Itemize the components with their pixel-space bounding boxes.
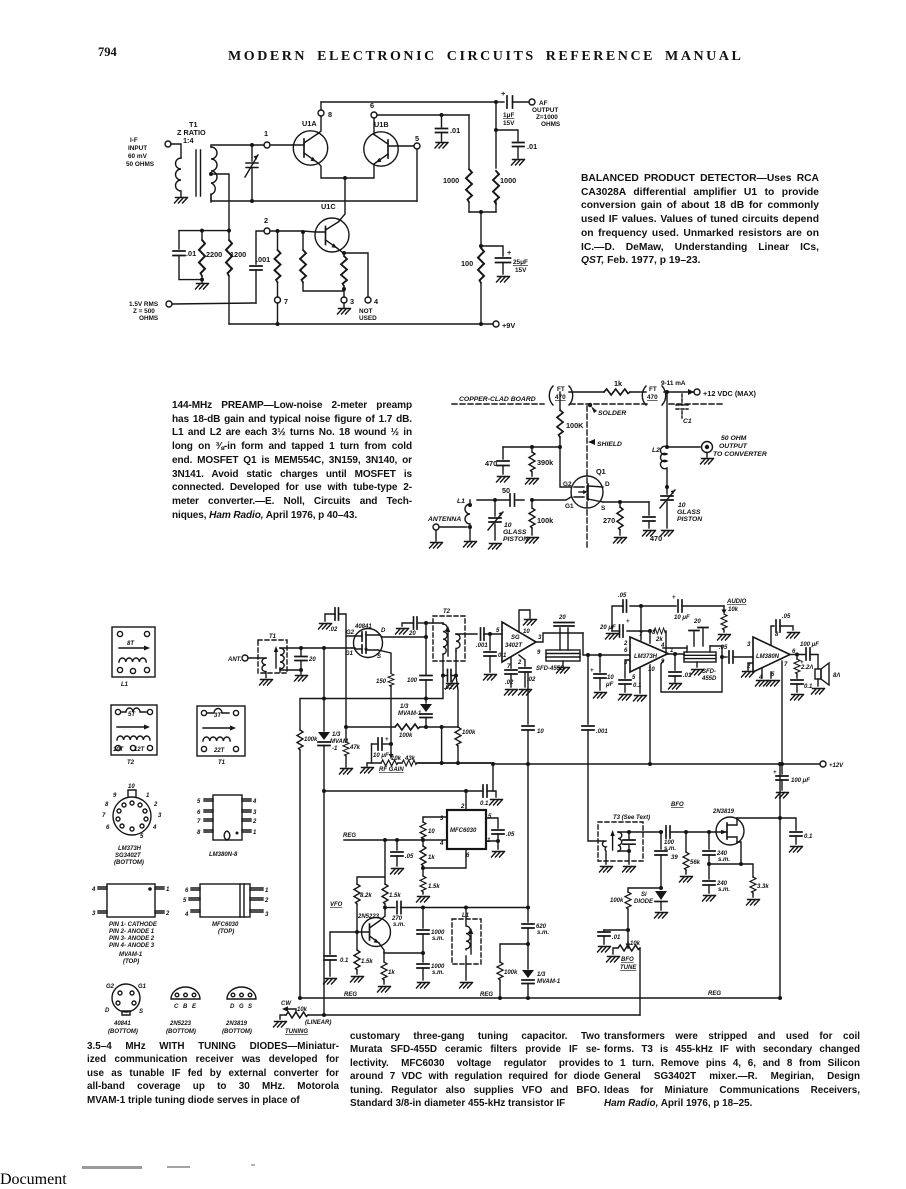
ground (390k) bbox=[526, 479, 539, 485]
svg-text:20: 20 bbox=[693, 619, 701, 625]
T3 primary coil with arrow bbox=[602, 830, 614, 864]
svg-text:7: 7 bbox=[284, 297, 288, 306]
svg-text:5: 5 bbox=[415, 134, 419, 143]
svg-text:BFO: BFO bbox=[671, 802, 684, 808]
wire drain junction bbox=[665, 485, 669, 489]
svg-text:50 OHMS: 50 OHMS bbox=[126, 161, 155, 168]
coil L1 bbox=[457, 498, 472, 527]
T1 secondary with arrow bbox=[274, 646, 284, 672]
svg-text:2: 2 bbox=[623, 641, 628, 647]
svg-text:40841: 40841 bbox=[354, 624, 372, 630]
svg-text:S: S bbox=[377, 654, 381, 660]
ground (base cap) bbox=[324, 979, 337, 985]
ground (.05 pin8) bbox=[787, 633, 800, 639]
svg-text:s.m.: s.m. bbox=[393, 922, 405, 928]
svg-text:3: 3 bbox=[253, 810, 257, 816]
svg-text:(BOTTOM): (BOTTOM) bbox=[108, 1029, 138, 1035]
svg-text:100k: 100k bbox=[504, 970, 518, 976]
resistor 100k (tuning feed) bbox=[497, 944, 528, 998]
svg-text:2: 2 bbox=[264, 216, 268, 225]
svg-text:6: 6 bbox=[106, 825, 110, 831]
node pin 3 bbox=[341, 297, 354, 306]
svg-text:150: 150 bbox=[376, 679, 387, 685]
potentiometer 10k RF GAIN bbox=[372, 744, 416, 773]
svg-text:10: 10 bbox=[607, 675, 614, 681]
svg-text:MVAM-1: MVAM-1 bbox=[398, 711, 422, 717]
ground (.05 reg) bbox=[391, 869, 404, 875]
ground (T1 secondary) bbox=[295, 676, 308, 682]
ground (pin2 .02) bbox=[519, 690, 532, 696]
wire G1 bbox=[352, 648, 355, 649]
ground (SFD1) bbox=[557, 668, 570, 674]
coil L1 (VFO tank) dashed box bbox=[452, 908, 481, 981]
svg-text:1k: 1k bbox=[428, 855, 435, 861]
coil L2 bbox=[652, 445, 669, 487]
wire pin2 to reg rail bbox=[465, 791, 467, 810]
capacitor .05 (pin7 top) bbox=[612, 593, 643, 640]
capacitor .02 (pin 2) bbox=[519, 655, 536, 687]
svg-text:REG: REG bbox=[480, 992, 493, 998]
wire pin10 to +12V rail bbox=[648, 665, 652, 766]
svg-text:U1B: U1B bbox=[374, 120, 389, 129]
node pin 6 bbox=[370, 101, 377, 118]
ground (BFO 0.1) bbox=[790, 847, 803, 853]
resistor 390k bbox=[529, 447, 554, 476]
left RC rail bbox=[179, 230, 229, 232]
svg-text:6: 6 bbox=[624, 648, 628, 654]
svg-text:5: 5 bbox=[197, 799, 201, 805]
capacitor .02 (T2 cold end) bbox=[441, 670, 458, 692]
svg-text:(BOTTOM): (BOTTOM) bbox=[166, 1029, 196, 1035]
svg-text:TUNING: TUNING bbox=[285, 1029, 308, 1035]
svg-text:8: 8 bbox=[105, 802, 109, 808]
wire pin 2 bbox=[742, 663, 755, 677]
svg-text:+: + bbox=[773, 770, 777, 776]
capacitor 240 s.m. (upper) bbox=[703, 830, 730, 866]
svg-text:+: + bbox=[800, 660, 804, 666]
svg-text:S: S bbox=[601, 505, 606, 512]
wire pin1 to U1A base bbox=[270, 144, 293, 146]
resistor (U1C emitter) bbox=[341, 251, 347, 297]
capacitor .05 (pin5-pin1) bbox=[486, 818, 515, 841]
svg-text:15V: 15V bbox=[515, 267, 527, 274]
scan artifact bars at page bottom bbox=[82, 1166, 142, 1169]
wire T2 bottom bus bbox=[426, 676, 443, 699]
resistor 1200 bbox=[226, 240, 246, 324]
top +rail bbox=[321, 101, 496, 103]
svg-text:VFO: VFO bbox=[330, 902, 343, 908]
wire down to 100/25uF bbox=[480, 212, 482, 248]
ground (top caps) bbox=[606, 634, 619, 640]
wire emitter feedback tap bbox=[384, 951, 425, 955]
svg-text:455D: 455D bbox=[701, 676, 717, 682]
svg-text:PISTON: PISTON bbox=[503, 536, 529, 543]
svg-text:PIN 3- ANODE 2: PIN 3- ANODE 2 bbox=[109, 936, 155, 942]
capacitor 0.1 (base) bbox=[324, 932, 357, 976]
wire source bbox=[603, 501, 649, 503]
svg-text:S: S bbox=[248, 1004, 252, 1010]
node ANT input bbox=[227, 655, 266, 663]
resistor 1.5k (collector) bbox=[382, 884, 401, 910]
svg-text:1: 1 bbox=[146, 793, 150, 799]
svg-text:(TOP): (TOP) bbox=[123, 959, 139, 965]
svg-text:OHMS: OHMS bbox=[541, 121, 561, 128]
ground (neutralizing 20) bbox=[396, 629, 409, 635]
svg-text:3.3k: 3.3k bbox=[757, 884, 769, 890]
svg-text:6: 6 bbox=[197, 810, 201, 816]
wire G1 bbox=[516, 497, 571, 500]
svg-text:3: 3 bbox=[350, 297, 354, 306]
svg-text:s.m.: s.m. bbox=[537, 930, 549, 936]
grounds (pins 4,5) bbox=[756, 668, 780, 686]
svg-text:s.m.: s.m. bbox=[432, 970, 444, 976]
svg-text:FT: FT bbox=[649, 386, 657, 393]
svg-text:100K: 100K bbox=[566, 421, 584, 430]
resistor (IC internal, pin2-pin3) bbox=[300, 230, 344, 291]
svg-text:20 μF: 20 μF bbox=[599, 625, 616, 631]
svg-text:s.m.: s.m. bbox=[718, 887, 730, 893]
svg-text:D: D bbox=[381, 628, 386, 634]
svg-text:4: 4 bbox=[374, 297, 379, 306]
svg-text:T3 (See Text): T3 (See Text) bbox=[613, 815, 650, 821]
svg-text:TUNE: TUNE bbox=[620, 965, 637, 971]
ground (RC network) bbox=[196, 280, 209, 289]
svg-text:SOLDER: SOLDER bbox=[598, 410, 626, 417]
svg-text:4: 4 bbox=[252, 799, 257, 805]
wire pin2 to U1C base bbox=[270, 231, 315, 232]
wire secondary top to pin 1 bbox=[211, 145, 264, 147]
IF amplifier LM373H triangle bbox=[623, 630, 674, 681]
svg-text:5: 5 bbox=[488, 814, 492, 820]
svg-text:(LINEAR): (LINEAR) bbox=[305, 1020, 331, 1026]
capacitor C1 (dashed) bbox=[676, 394, 692, 425]
capacitor .05 (reg bypass) bbox=[391, 838, 414, 866]
svg-text:COPPER-CLAD BOARD: COPPER-CLAD BOARD bbox=[459, 396, 536, 403]
svg-text:SHIELD: SHIELD bbox=[597, 441, 622, 448]
diode MVAM-1 pinout bbox=[91, 884, 170, 965]
svg-text:10: 10 bbox=[428, 829, 435, 835]
wire +12 down branch bbox=[665, 390, 669, 447]
T2 secondary coil bbox=[456, 634, 460, 676]
svg-text:10 μF: 10 μF bbox=[373, 753, 389, 759]
svg-text:INPUT: INPUT bbox=[128, 145, 147, 152]
svg-text:0.1: 0.1 bbox=[480, 801, 489, 807]
label T1 Z RATIO 1:4 bbox=[177, 120, 206, 145]
svg-text:20: 20 bbox=[308, 657, 316, 663]
svg-text:.05: .05 bbox=[782, 614, 791, 620]
potentiometer 10k BFO TUNE bbox=[613, 941, 641, 971]
resistor 10 (pin3) bbox=[420, 817, 447, 840]
svg-text:FT: FT bbox=[557, 386, 565, 393]
ground (240 lower) bbox=[703, 896, 716, 902]
node pin 5 bbox=[414, 134, 420, 149]
svg-text:GLASS: GLASS bbox=[677, 509, 701, 516]
wire pin1 to ground bbox=[486, 839, 505, 857]
svg-text:E: E bbox=[192, 1004, 197, 1010]
svg-text:REG: REG bbox=[708, 991, 721, 997]
T2 primary coil with arrow bbox=[443, 623, 450, 676]
svg-text:T1: T1 bbox=[218, 760, 226, 766]
svg-text:390k: 390k bbox=[537, 458, 554, 467]
wire pot to tuning bus bbox=[639, 948, 641, 1015]
svg-text:RF GAIN: RF GAIN bbox=[379, 767, 404, 773]
capacitor 0.1 (zobel) bbox=[791, 680, 813, 692]
svg-text:10: 10 bbox=[128, 784, 135, 790]
svg-text:8.2k: 8.2k bbox=[360, 893, 372, 899]
svg-text:1: 1 bbox=[253, 830, 257, 836]
svg-text:G1: G1 bbox=[138, 984, 147, 990]
transformer T1 pinout box bbox=[197, 706, 245, 766]
svg-text:Z = 500: Z = 500 bbox=[133, 308, 155, 315]
svg-text:D: D bbox=[105, 1008, 110, 1014]
svg-text:G: G bbox=[239, 1004, 244, 1010]
svg-text:2: 2 bbox=[153, 802, 158, 808]
wire SFD1 to IF amp bbox=[583, 633, 629, 657]
svg-text:ANTENNA: ANTENNA bbox=[427, 516, 461, 523]
resistor 1k (emitter) bbox=[381, 952, 395, 984]
svg-text:SFD-: SFD- bbox=[702, 669, 716, 675]
wire G2 bbox=[346, 636, 355, 727]
resistor 1k (pin4-pin6 divider) bbox=[420, 840, 435, 870]
ground (audio pot) bbox=[718, 635, 731, 641]
capacitor 100uF (speaker coupling) bbox=[800, 642, 819, 668]
capacitor 10 (IF takeoff) bbox=[522, 672, 544, 908]
transistor 2N5223 (VFO) bbox=[357, 908, 391, 953]
svg-text:S: S bbox=[139, 1009, 143, 1015]
svg-text:G2: G2 bbox=[563, 481, 572, 488]
ground (connector) bbox=[701, 459, 714, 465]
svg-text:PIN 1- CATHODE: PIN 1- CATHODE bbox=[109, 922, 158, 928]
capacitor 100 (AGC filter) bbox=[322, 676, 432, 704]
capacitor .001 (IF line bypass) bbox=[582, 655, 608, 841]
ground (100k) bbox=[526, 538, 539, 544]
svg-text:4: 4 bbox=[152, 825, 157, 831]
svg-text:5: 5 bbox=[140, 834, 144, 840]
ground (3.3k) bbox=[747, 900, 760, 906]
svg-text:10: 10 bbox=[537, 729, 544, 735]
svg-text:MVAM: MVAM bbox=[330, 739, 349, 745]
node pin 4 NOT USED bbox=[359, 297, 379, 322]
svg-text:100 μF: 100 μF bbox=[791, 778, 810, 784]
node pin 7 bbox=[275, 297, 289, 306]
svg-text:Si: Si bbox=[641, 892, 647, 898]
resistor 1000 (right) bbox=[493, 171, 516, 212]
svg-text:60 mV: 60 mV bbox=[128, 153, 148, 160]
svg-text:2N3819: 2N3819 bbox=[712, 809, 735, 815]
IC MFC6030 pinout bbox=[183, 884, 269, 935]
wire drain bbox=[737, 816, 796, 830]
svg-text:+: + bbox=[672, 595, 676, 601]
junction bbox=[250, 143, 254, 147]
svg-text:LM380N-8: LM380N-8 bbox=[209, 852, 238, 858]
neutralizing wire with capacitor 20 bbox=[402, 617, 428, 637]
svg-text:10: 10 bbox=[523, 629, 530, 635]
capacitor 470 (source) bbox=[643, 502, 662, 543]
resistor 100k (left tuning feed) bbox=[297, 699, 426, 999]
wire top rail down right branch bbox=[495, 102, 497, 168]
op-amp U1A (transistor) bbox=[293, 116, 345, 178]
svg-text:100: 100 bbox=[461, 259, 473, 268]
svg-text:1.5k: 1.5k bbox=[389, 893, 401, 899]
svg-text:s.m.: s.m. bbox=[432, 936, 444, 942]
node AF output bbox=[529, 99, 561, 128]
svg-text:2: 2 bbox=[517, 660, 522, 666]
wire mixer output bbox=[536, 633, 583, 642]
svg-text:MVAM-1: MVAM-1 bbox=[119, 952, 143, 958]
svg-text:SG: SG bbox=[511, 635, 520, 641]
capacitor 0.1 (mixer input bypass) bbox=[484, 632, 507, 672]
svg-text:G2: G2 bbox=[346, 630, 355, 636]
svg-text:G1: G1 bbox=[565, 503, 574, 510]
ground (SFD2) bbox=[691, 670, 704, 676]
svg-text:C1: C1 bbox=[683, 418, 692, 425]
svg-text:BFO: BFO bbox=[621, 957, 634, 963]
ground (divider) bbox=[417, 897, 430, 903]
svg-text:PIN 2- ANODE 1: PIN 2- ANODE 1 bbox=[109, 929, 155, 935]
svg-text:.02: .02 bbox=[505, 680, 514, 686]
ground (100uF supply) bbox=[776, 793, 789, 799]
ground (0.1 regulator) bbox=[490, 800, 503, 806]
svg-text:REG: REG bbox=[344, 992, 357, 998]
svg-text:10k: 10k bbox=[391, 756, 402, 762]
svg-text:L1: L1 bbox=[121, 682, 129, 688]
svg-text:3: 3 bbox=[158, 813, 162, 819]
wire secondary top bbox=[280, 647, 352, 649]
ground (Si diode) bbox=[655, 913, 668, 919]
label 9-11 mA bbox=[661, 380, 694, 395]
svg-text:7: 7 bbox=[197, 819, 201, 825]
capacitor 0.1 (pin1 bypass) bbox=[669, 654, 692, 682]
svg-text:7: 7 bbox=[784, 662, 788, 668]
svg-text:1000: 1000 bbox=[500, 176, 516, 185]
svg-text:SG3402T: SG3402T bbox=[115, 853, 142, 859]
resistor 2k (feedback) bbox=[654, 628, 666, 654]
ground (.01 output) bbox=[512, 160, 525, 166]
transformer T3 dashed box bbox=[598, 815, 650, 861]
svg-text:1μF: 1μF bbox=[503, 112, 514, 119]
svg-text:10T: 10T bbox=[113, 747, 125, 753]
ground (T1 primary) bbox=[175, 198, 188, 204]
svg-text:.001: .001 bbox=[476, 643, 488, 649]
ground (pin 3) bbox=[338, 303, 351, 314]
coil L1 pinout box bbox=[112, 627, 155, 688]
svg-text:OHMS: OHMS bbox=[139, 315, 159, 322]
diode 1/3 MVAM-1 (T1 tuning) bbox=[318, 648, 349, 1015]
svg-text:5: 5 bbox=[496, 628, 500, 634]
svg-text:9: 9 bbox=[537, 650, 541, 656]
svg-text:Q1: Q1 bbox=[596, 467, 606, 476]
ground (T2 .02) bbox=[446, 676, 459, 690]
ground (56k) bbox=[680, 877, 693, 883]
svg-text:1/3: 1/3 bbox=[332, 732, 341, 738]
capacitor .01 (left) bbox=[173, 231, 201, 280]
svg-text:LM380N: LM380N bbox=[756, 654, 780, 660]
svg-text:NOT: NOT bbox=[359, 308, 373, 315]
capacitor .01 (BFO tune) bbox=[598, 928, 630, 944]
svg-text:.01: .01 bbox=[450, 126, 460, 135]
bottom return rail of input section bbox=[211, 194, 417, 201]
transistor U1C bbox=[315, 202, 349, 253]
svg-text:20: 20 bbox=[558, 615, 566, 621]
wire pin6 bbox=[423, 849, 466, 868]
+12V supply rail bbox=[417, 762, 820, 766]
shield arrow label bbox=[588, 439, 622, 448]
svg-text:1/3: 1/3 bbox=[537, 972, 546, 978]
svg-text:8T: 8T bbox=[127, 641, 135, 647]
wire pin2 left to .001 bbox=[256, 231, 264, 264]
page number bbox=[98, 45, 117, 60]
svg-text:+: + bbox=[626, 619, 630, 625]
svg-text:.05: .05 bbox=[618, 593, 627, 599]
transformer T1 primary bbox=[176, 158, 182, 197]
wire SFD2 out / capacitor .05 bbox=[660, 643, 722, 692]
op-amp SG3402T mixer U-triangle bbox=[496, 622, 542, 670]
svg-text:100k: 100k bbox=[462, 730, 476, 736]
capacitor 100 s.m. bbox=[664, 826, 716, 852]
caption: 144-MHz preamp bbox=[172, 399, 412, 522]
solder point bbox=[588, 403, 627, 417]
svg-text:8: 8 bbox=[197, 830, 201, 836]
+12V supply rail bbox=[569, 391, 694, 393]
REG return rail bbox=[298, 991, 782, 1000]
T1 primary bbox=[262, 658, 266, 678]
ground (zobel) bbox=[791, 695, 804, 701]
svg-text:AF: AF bbox=[539, 100, 548, 107]
svg-text:10: 10 bbox=[504, 522, 512, 529]
svg-text:5T: 5T bbox=[128, 712, 136, 718]
capacitor 20 (antenna tank) bbox=[295, 648, 316, 670]
ground (antenna) bbox=[430, 530, 443, 548]
svg-text:2N5223: 2N5223 bbox=[357, 914, 380, 920]
trimmer 10 glass piston (output) bbox=[660, 487, 703, 528]
+9V rail bbox=[229, 322, 493, 326]
svg-text:1/3: 1/3 bbox=[400, 704, 409, 710]
capacitor .01 (pin6) bbox=[436, 115, 461, 141]
wire source to divider tap bbox=[709, 842, 753, 877]
svg-text:1k: 1k bbox=[388, 970, 395, 976]
svg-text:U1A: U1A bbox=[302, 119, 317, 128]
ground (.01 pin6) bbox=[435, 143, 448, 149]
capacitor 470 (gate2 bypass) bbox=[485, 447, 509, 474]
wire reg to VFO bias bbox=[357, 840, 385, 884]
svg-text:1200: 1200 bbox=[230, 250, 246, 259]
svg-text:100: 100 bbox=[407, 678, 418, 684]
transistor U1B bbox=[345, 118, 398, 178]
ground (tuning pot) bbox=[274, 1022, 287, 1028]
resistor 43k bbox=[398, 760, 493, 766]
svg-text:-1: -1 bbox=[332, 746, 338, 752]
capacitor 20 (across SFD1) bbox=[554, 615, 574, 633]
resistor 100k (BFO tune feed) bbox=[610, 888, 661, 948]
svg-text:9: 9 bbox=[113, 793, 117, 799]
svg-text:100k: 100k bbox=[399, 733, 413, 739]
svg-text:4: 4 bbox=[91, 887, 96, 893]
svg-text:MFC6030: MFC6030 bbox=[450, 828, 477, 834]
svg-text:2N5223: 2N5223 bbox=[169, 1021, 192, 1027]
capacitor .001 bbox=[250, 255, 270, 303]
regulator output rail bbox=[322, 789, 468, 793]
svg-text:USED: USED bbox=[359, 315, 377, 322]
wire pin7 to +9V rail bbox=[277, 303, 279, 324]
svg-text:1: 1 bbox=[264, 129, 268, 138]
node pin 8 bbox=[318, 110, 332, 119]
svg-text:10: 10 bbox=[678, 502, 686, 509]
svg-text:T1: T1 bbox=[269, 634, 277, 640]
transistor 40841 can pinout bbox=[105, 984, 147, 1035]
svg-text:10: 10 bbox=[648, 667, 655, 673]
ground (0.1 mixer) bbox=[484, 675, 497, 681]
svg-text:+: + bbox=[501, 89, 505, 98]
